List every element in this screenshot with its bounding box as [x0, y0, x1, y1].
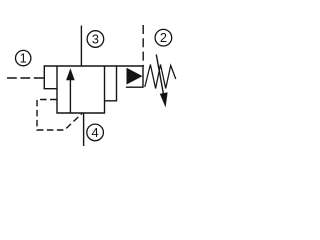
- svg-text:2: 2: [160, 30, 167, 45]
- left tab of valve body: [44, 66, 57, 89]
- port circle 2: [155, 29, 172, 46]
- valve body main rectangle: [57, 66, 105, 113]
- wire: port 3 line: [80, 26, 82, 67]
- valve body neck step: [105, 66, 117, 101]
- wire: dashed pilot line from port 1: [7, 77, 44, 79]
- svg-text:3: 3: [92, 31, 99, 46]
- wire: dashed port 2 line: [142, 25, 144, 66]
- seat box around poppet: [126, 66, 143, 87]
- spring: [145, 65, 176, 89]
- svg-text:4: 4: [92, 125, 99, 140]
- port circle 3: [87, 31, 104, 48]
- poppet (black triangle): [127, 68, 143, 85]
- wire: dashed drain pilot path: [37, 100, 82, 131]
- valve body top edge: [44, 65, 144, 67]
- port circle 4: [87, 124, 104, 141]
- wire: port 4 line: [83, 113, 85, 146]
- flow arrow inside body: [66, 68, 75, 113]
- port circle 1: [16, 50, 31, 65]
- adjustment arrow through spring: [156, 55, 167, 108]
- svg-text:1: 1: [20, 51, 27, 66]
